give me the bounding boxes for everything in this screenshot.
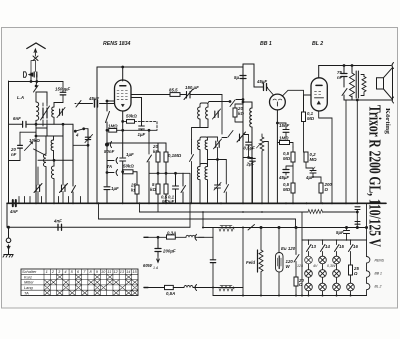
svg-text:4: 4 (75, 133, 79, 138)
lamp La5 (319, 270, 327, 278)
capacitor 0.1uF (173, 186, 179, 189)
mains dropper resistor bottom (219, 286, 234, 291)
svg-text:150 µF: 150 µF (185, 85, 199, 90)
heater rail (366, 228, 368, 257)
coil L1 (36, 92, 39, 128)
lamp column wires (309, 240, 351, 296)
svg-text:200µF: 200µF (162, 249, 176, 254)
svg-text:2µF: 2µF (246, 162, 255, 167)
capacitor pair right end (355, 207, 360, 210)
bottom long wire (213, 295, 367, 297)
svg-text:4nF: 4nF (53, 219, 62, 224)
tube RENS 1834 (115, 80, 132, 111)
svg-text:13: 13 (311, 244, 316, 249)
svg-text:45µF: 45µF (278, 175, 289, 180)
wire down (35, 75, 38, 87)
wire BL2 top (318, 66, 320, 78)
choke coil x252 (250, 102, 252, 203)
table X marks Kurz (57, 274, 132, 279)
wire hairpin IF1 (200, 103, 208, 107)
heater bump BB1 (367, 271, 370, 283)
variable capacitor C6 (215, 111, 218, 118)
lamp switch 13 (307, 245, 312, 252)
wire loop around L1/C1 (36, 92, 47, 128)
node (35, 85, 37, 87)
wire IF1 bottom (192, 128, 209, 140)
resistor 0.5M (164, 184, 168, 194)
svg-text:MΩ: MΩ (283, 156, 291, 161)
wire transformer down (356, 100, 358, 203)
terminal hook TA1 (116, 158, 117, 164)
svg-text:11: 11 (107, 269, 111, 274)
svg-text:1µF: 1µF (126, 152, 134, 157)
wire tube top cap (122, 67, 124, 81)
switch S-ant (33, 56, 38, 61)
switch S7 (222, 131, 233, 138)
speaker (377, 68, 393, 100)
bus stub wires (19, 197, 81, 204)
table X marks Mittel (44, 280, 138, 285)
wire x243 mains (242, 228, 244, 296)
terminal hook TA2 (116, 170, 117, 176)
switch S1 (34, 86, 39, 93)
wire y240 lamps top (302, 239, 367, 241)
variable capacitor wave trap (60, 109, 63, 115)
ground lead (8, 227, 10, 238)
antenna (27, 43, 45, 56)
rail B (99, 218, 296, 220)
svg-text:BL 2: BL 2 (312, 41, 323, 47)
svg-text:Kurz: Kurz (24, 274, 32, 279)
wire BL2 grid left (304, 95, 312, 112)
bus second line (7, 226, 190, 228)
variable capacitor C1 (41, 103, 50, 128)
heater bump RENS (367, 257, 370, 271)
wave trap coil (52, 103, 54, 125)
ground arrow (7, 246, 11, 249)
wave trap loop top (54, 102, 63, 104)
lamp La7 (305, 283, 313, 291)
wire RENS right pins (131, 95, 161, 126)
svg-text:5µF: 5µF (336, 230, 344, 235)
variable capacitor C9 (215, 185, 221, 188)
svg-text:Mittel: Mittel (24, 280, 33, 285)
svg-text:L.A: L.A (17, 95, 24, 100)
pot wiper arrow (257, 144, 261, 149)
variable capacitor C2 (36, 185, 39, 192)
variable capacitor C5 (187, 92, 191, 99)
switch S4 (147, 155, 152, 203)
wire y145 link (73, 144, 88, 146)
variable capacitor C8 (216, 141, 219, 147)
lamp La1 (305, 256, 313, 264)
bottom mains terminal hook 1 (195, 234, 197, 240)
svg-text:Schalter: Schalter (22, 269, 37, 274)
speaker voice coil (362, 77, 366, 92)
switch S8 (224, 160, 229, 204)
top line to output (319, 65, 391, 67)
vertical feed x243 (242, 64, 244, 203)
wire rectifier (278, 228, 280, 296)
svg-text:BB 1: BB 1 (260, 41, 272, 47)
svg-text:Ω: Ω (324, 187, 329, 192)
svg-text:1µF: 1µF (111, 186, 119, 191)
svg-text:Feld: Feld (246, 260, 255, 265)
svg-text:BB 1: BB 1 (375, 272, 382, 276)
variable capacitor C3 (62, 185, 66, 192)
switch table (21, 269, 138, 296)
mains choke 1 (186, 235, 213, 237)
IF transformer 1 coil a (198, 107, 200, 128)
wire bar link (38, 124, 73, 184)
switch S9 (342, 89, 352, 101)
svg-text:50nF: 50nF (104, 149, 115, 154)
svg-text:RENS: RENS (375, 259, 385, 263)
plug arrow (29, 73, 34, 77)
pot wiper wire (34, 149, 47, 156)
capacitor right end 2 (355, 222, 360, 225)
svg-text:1MΩ: 1MΩ (108, 124, 118, 129)
lamp La4 (305, 270, 313, 278)
wire BB1 diode right (282, 90, 303, 96)
wire RENS left pin (107, 101, 115, 111)
variable capacitor C4 (85, 137, 90, 139)
switch S6 (230, 100, 243, 107)
capacitor 200uF (155, 249, 161, 252)
mains dropper resistor top (219, 226, 234, 231)
wire hairpin IF2b (200, 164, 208, 167)
wire to left rail (9, 73, 64, 82)
switch S2 (72, 184, 76, 203)
svg-text:kΩ: kΩ (238, 111, 244, 116)
main bus (chassis) (7, 202, 386, 204)
resistor lamp 25 Ohm (349, 265, 353, 275)
IF transformer 2 coil d (205, 167, 208, 204)
wire hairpin IF2a (200, 137, 218, 140)
ground symbol (3, 255, 13, 258)
svg-text:MΩ: MΩ (310, 157, 318, 162)
svg-text:0,1MΩ: 0,1MΩ (168, 153, 182, 158)
lamp La6 (333, 270, 341, 278)
svg-text:4V: 4V (313, 264, 318, 268)
coil L2 (43, 136, 46, 203)
switch S11 (294, 253, 299, 268)
right end vertical (366, 203, 368, 227)
lamp La8 (319, 283, 327, 291)
wire BB1 diode left (267, 88, 273, 95)
svg-text:Lang: Lang (24, 285, 33, 290)
capacitor 4uF (310, 171, 316, 174)
node (35, 135, 37, 137)
svg-text:0,5A: 0,5A (166, 291, 175, 296)
wire down from pot (35, 136, 37, 203)
svg-text:Trixor R 2200 GL, 110/125 V: Trixor R 2200 GL, 110/125 V (366, 105, 385, 247)
hum resistor under bus (308, 210, 323, 214)
transformer core (356, 71, 358, 98)
svg-text:1µF: 1µF (138, 132, 146, 137)
switch S12 (106, 112, 110, 144)
svg-text:Ω: Ω (353, 271, 358, 276)
volume potentiometer zigzag (260, 134, 264, 203)
fuse 0.5A (165, 285, 174, 289)
terminal hook out2 (392, 97, 394, 103)
svg-text:4nF: 4nF (9, 209, 18, 214)
left rail wire (8, 81, 10, 203)
IF transformer 2 coil c (197, 167, 200, 204)
capacitor 1uF (104, 187, 110, 190)
electrolytic 50nF (105, 143, 108, 146)
svg-text:nF: nF (337, 75, 343, 80)
wire IF2 mid link (208, 159, 227, 161)
wire BB1 down (276, 110, 278, 203)
lamp La2 (319, 256, 327, 264)
lamp La9 (333, 283, 341, 291)
switch S5 (181, 173, 186, 203)
svg-text:50kΩ: 50kΩ (126, 114, 137, 119)
switch S10 (248, 225, 255, 231)
svg-text:85.5: 85.5 (169, 88, 178, 93)
mains choke 2 (184, 286, 199, 288)
capacitor mains x208 (210, 260, 215, 263)
capacitor 4nF on bus (13, 200, 16, 206)
antenna plug (24, 72, 27, 78)
svg-text:TA: TA (24, 290, 29, 295)
svg-text:45µF: 45µF (256, 79, 267, 84)
bus junction dots (13, 202, 358, 296)
lamp switch 16 (349, 245, 354, 252)
capacitor C-ant (34, 72, 37, 77)
svg-text:14: 14 (325, 244, 330, 249)
coil L3a (51, 136, 53, 160)
table X marks TA (44, 290, 138, 295)
top bus wire y67 (97, 66, 243, 68)
wire x149 down (148, 130, 150, 154)
wire x346 down (345, 100, 347, 203)
svg-text:MΩ: MΩ (307, 116, 315, 121)
wire y173 link (149, 173, 190, 227)
wire y143 link (107, 142, 166, 144)
switch S13 (75, 129, 88, 132)
IF transformer 2 coil a (198, 140, 200, 166)
wire mains bottom (199, 287, 244, 289)
variable capacitor C7 (240, 134, 244, 141)
tube BB1 (270, 94, 286, 110)
wire antenna pair (31, 61, 36, 73)
svg-text:0,5µF: 0,5µF (244, 146, 256, 151)
svg-text:6nF: 6nF (13, 116, 21, 121)
wire left edge down (6, 203, 8, 227)
capacitor 1uF anode (139, 126, 145, 129)
top wire to BB1 (243, 64, 254, 87)
switch S3 (75, 101, 81, 108)
svg-text:15: 15 (339, 244, 344, 249)
wire x222 down (221, 95, 223, 135)
coil L3 (51, 160, 54, 203)
wire mains top (199, 212, 214, 237)
svg-text:60W: 60W (143, 263, 153, 268)
wire column x97 (96, 67, 98, 203)
wire IF1 top to switch (208, 102, 230, 104)
lamp La3 (333, 256, 341, 264)
svg-text:Eu 120: Eu 120 (281, 246, 296, 251)
heater bump BL2 (351, 283, 370, 295)
svg-text:nF: nF (11, 152, 17, 157)
lamp switch 15 (335, 245, 340, 252)
svg-text:16: 16 (353, 244, 358, 249)
svg-text:0,3W: 0,3W (327, 264, 336, 268)
svg-text:BL 2: BL 2 (375, 285, 382, 289)
tube BL2 (311, 78, 327, 111)
arrow down (157, 256, 160, 263)
svg-text:1 A: 1 A (153, 266, 159, 270)
wire BL2 down (319, 111, 332, 203)
capacitor 45uF det (283, 170, 289, 173)
output transformer primary (350, 73, 355, 97)
lamp switch 14 (321, 245, 326, 252)
rectifier tube U120 (276, 253, 284, 273)
lamp La10 (347, 283, 355, 291)
svg-text:5µ: 5µ (234, 75, 239, 80)
grid line to RENS (78, 101, 115, 104)
table X marks Lang (44, 285, 138, 290)
terminal hook out1 (392, 63, 394, 69)
left tuner: wire second column (36, 124, 63, 136)
wire RENS cathode down (122, 111, 124, 157)
IF transformer 1 coil b (206, 107, 208, 128)
main bus continuation (200, 202, 354, 204)
bus line y213 (140, 211, 356, 213)
node (53, 159, 55, 161)
svg-text:µF: µF (168, 199, 175, 204)
svg-text:50kΩ: 50kΩ (123, 164, 134, 169)
IF transformer 2 coil b (205, 140, 207, 166)
svg-text:RENS 1834: RENS 1834 (103, 41, 131, 47)
resistor 20 Ohm left (294, 277, 298, 286)
svg-text:15nF: 15nF (279, 123, 290, 128)
switch S14 (190, 140, 194, 204)
wire column x88 (87, 129, 89, 203)
svg-text:MΩ: MΩ (283, 187, 291, 192)
bus line y221.5 (203, 227, 367, 229)
pot return wire (264, 142, 268, 204)
bottom mains terminal hook 2 (195, 285, 197, 291)
svg-text:kΩ: kΩ (150, 187, 156, 192)
svg-text:1MΩ: 1MΩ (279, 136, 289, 141)
svg-text:1: 1 (46, 269, 48, 274)
ground plug (6, 238, 11, 255)
